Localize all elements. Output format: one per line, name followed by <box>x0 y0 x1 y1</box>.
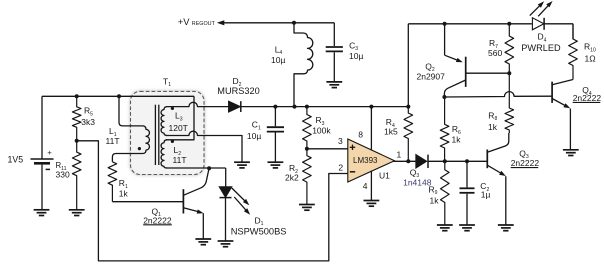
svg-text:2: 2 <box>338 162 343 172</box>
svg-text:PWRLED: PWRLED <box>521 43 561 53</box>
svg-text:1k: 1k <box>488 122 498 132</box>
svg-text:1k: 1k <box>452 135 462 145</box>
svg-text:NSPW500BS: NSPW500BS <box>231 226 287 236</box>
svg-text:2n2222: 2n2222 <box>143 215 172 225</box>
svg-text:3k3: 3k3 <box>81 117 95 127</box>
svg-text:1k: 1k <box>119 188 129 198</box>
svg-text:1: 1 <box>397 150 402 160</box>
svg-text:1k: 1k <box>430 195 440 205</box>
svg-text:10µ: 10µ <box>271 55 285 65</box>
svg-text:2k2: 2k2 <box>285 172 299 182</box>
svg-text:10µ: 10µ <box>247 131 261 141</box>
svg-text:+V: +V <box>178 16 190 27</box>
svg-text:120T: 120T <box>169 123 188 133</box>
svg-text:4: 4 <box>363 181 368 191</box>
svg-text:2n2222: 2n2222 <box>573 93 602 103</box>
svg-text:MURS320: MURS320 <box>217 86 259 96</box>
svg-text:U1: U1 <box>379 170 390 180</box>
svg-text:1k5: 1k5 <box>384 126 398 136</box>
svg-text:1n4148: 1n4148 <box>403 178 432 188</box>
svg-text:1µ: 1µ <box>481 190 491 200</box>
svg-text:100k: 100k <box>312 126 331 136</box>
svg-text:+: + <box>47 148 52 157</box>
svg-text:560: 560 <box>488 48 502 58</box>
svg-text:11T: 11T <box>173 155 187 165</box>
svg-text:LM393: LM393 <box>353 156 378 165</box>
svg-text:2n2907: 2n2907 <box>417 71 446 81</box>
svg-text:3: 3 <box>338 136 343 146</box>
svg-text:330: 330 <box>56 170 70 180</box>
svg-text:10µ: 10µ <box>349 51 363 61</box>
svg-text:11T: 11T <box>106 136 120 146</box>
svg-text:1V5: 1V5 <box>8 155 24 165</box>
svg-text:REGOUT: REGOUT <box>192 21 216 27</box>
svg-text:1Ω: 1Ω <box>585 53 596 63</box>
svg-text:8: 8 <box>358 129 363 139</box>
svg-text:2n2222: 2n2222 <box>511 158 540 168</box>
